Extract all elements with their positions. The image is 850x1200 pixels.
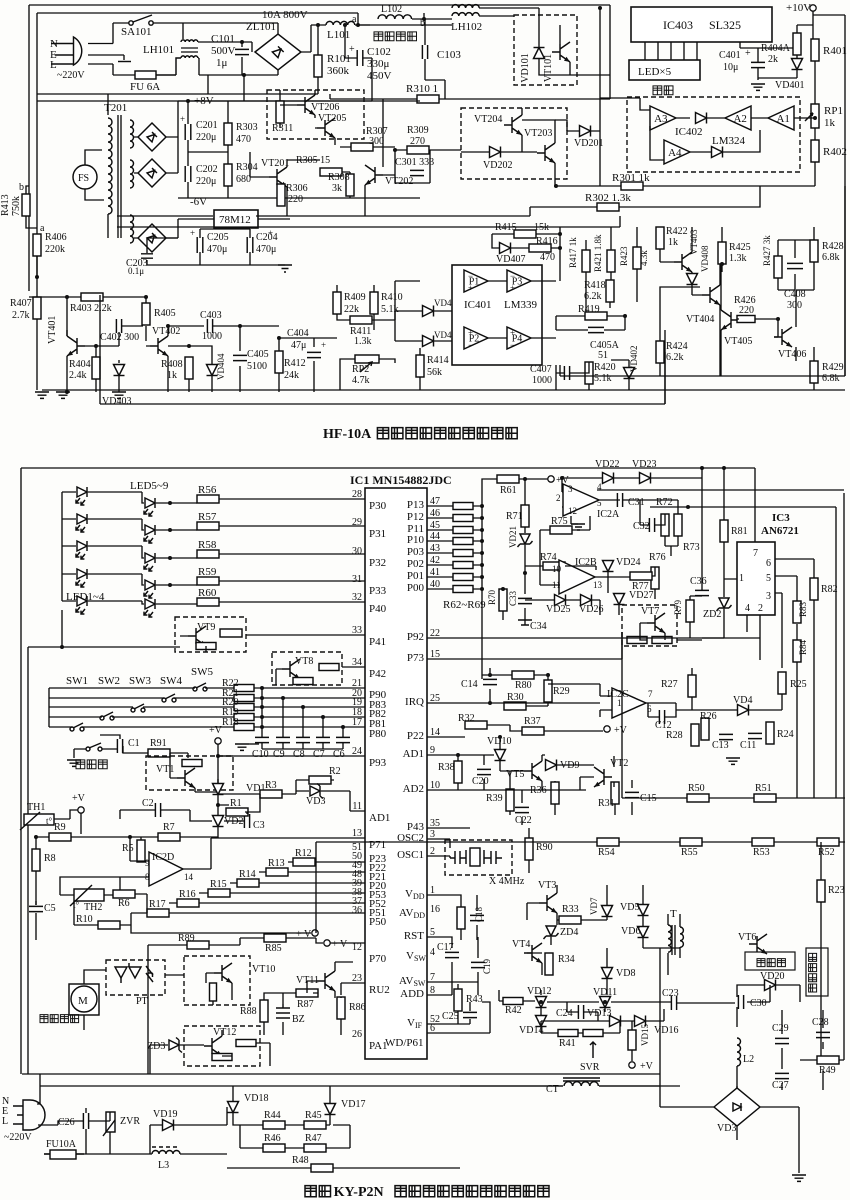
junction [720,262,724,266]
svg-text:R12: R12 [295,848,312,859]
diode VD12 [536,997,547,1008]
diode VD10 [495,750,506,761]
diode VD20 [765,980,776,991]
junction [523,477,527,481]
resistor R44 [263,1121,285,1129]
resistor VT7 b1 [627,637,647,644]
wire R32 R37 [427,725,603,737]
wire LH101 out [198,42,278,75]
svg-text:R302 1.3k: R302 1.3k [585,192,631,204]
resistor R308 [346,174,354,196]
svg-text:R56: R56 [198,484,217,496]
junction [480,516,484,520]
transistor VT5 [524,761,542,781]
terminal +V 5 [629,1062,635,1068]
svg-text:VT7: VT7 [641,606,659,617]
potentiometer RP1 [811,104,819,128]
svg-text:C402 300: C402 300 [100,332,139,343]
resistor R30 [504,702,526,710]
svg-text:X 4MHz: X 4MHz [489,876,525,887]
svg-text:C1: C1 [128,738,140,749]
resistor R303 [224,123,232,145]
svg-text:R413: R413 [0,194,11,216]
svg-text:R88: R88 [240,1006,257,1017]
svg-text:R7: R7 [163,822,175,833]
wire IRQ area [427,668,600,706]
dashed box VT10 [184,956,250,1005]
svg-text:R310 1: R310 1 [406,83,438,95]
capacitor C9 [276,737,290,742]
wire VT202 area [365,99,461,216]
capacitor C33 [518,598,532,603]
diode VD4 [738,705,749,716]
svg-text:VT403: VT403 [689,229,699,255]
svg-text:10A 800V: 10A 800V [262,9,308,21]
op-amp IC2C [612,688,646,718]
capacitor C405 [233,355,247,360]
resistor R428 [810,240,818,262]
svg-text:R81: R81 [731,526,748,537]
optocoupler PT [115,967,141,978]
resistor R305 [320,168,342,176]
resistor R404A [793,33,801,55]
svg-text:3k: 3k [332,183,342,194]
svg-text:L2: L2 [743,1054,754,1065]
wire IC2D area [36,837,365,905]
wire 78M12 [178,218,290,220]
ground [571,524,585,530]
resistor RC18 [457,907,465,929]
svg-text:VD7: VD7 [589,897,599,915]
svg-text:R27: R27 [661,679,678,690]
diode VD27 [614,594,625,605]
dashed box VT206/VT205 [267,90,364,139]
zener ZD3 [169,1038,182,1053]
svg-text:FS: FS [78,173,89,184]
svg-text:7: 7 [753,548,758,559]
diode VD15 [610,1016,621,1027]
svg-text:3: 3 [766,591,771,602]
svg-text:L3: L3 [158,1160,169,1171]
resistor R53 [752,838,774,846]
resistor R65 [453,538,473,545]
wire main frame [29,5,610,291]
svg-text:6.2k: 6.2k [666,352,684,363]
transistor VT404 [702,285,720,305]
diode VD11 [600,997,611,1008]
wire R424 [660,287,700,376]
svg-text:R26: R26 [700,711,717,722]
svg-text:R43: R43 [466,994,483,1005]
wire bridge B3 [134,237,178,239]
svg-text:C13: C13 [712,740,729,751]
wire T core [672,925,675,955]
svg-text:14: 14 [184,872,194,882]
ground [726,758,740,764]
junction [341,725,345,729]
svg-text:330μ: 330μ [367,58,390,70]
svg-text:56k: 56k [427,367,442,378]
svg-text:13: 13 [593,580,603,590]
resistor R61 [497,475,519,483]
junction [166,324,170,328]
resistor R421 [607,250,615,272]
varistor ZVR [106,1112,115,1132]
resistor R31 [611,782,619,804]
junction [65,390,69,394]
op-amp IC2D [149,852,183,886]
diode VD19 [163,1120,174,1131]
T201 sec1 [130,120,134,148]
wire TH2 area [36,877,147,940]
wire opamp row [676,117,815,119]
wire reg caps top [178,219,250,238]
svg-text:P80: P80 [369,728,387,740]
capacitor C204 [247,237,253,253]
svg-text:C204: C204 [256,232,278,243]
LED5 [76,487,87,505]
resistor R41b [583,1030,603,1037]
svg-text:R423: R423 [619,246,629,266]
diode VD24 [603,561,614,572]
wire row A right edge [597,490,844,842]
svg-text:SW5: SW5 [191,666,214,678]
wire LED col1 [62,492,142,601]
transistor VT204 [504,115,522,135]
thermistor TH1 [24,814,54,825]
junction [480,551,484,555]
capacitor C24 [578,1005,583,1019]
resistor R32 [465,721,487,729]
svg-text:C29: C29 [772,1023,789,1034]
svg-text:C22: C22 [515,815,532,826]
LED6 [76,514,87,532]
wire a4 [600,97,640,99]
wire bridge B1 [134,136,178,138]
AC plug 2 [13,1100,45,1130]
T201 sec2 [130,160,134,188]
svg-text:VT201: VT201 [261,158,289,169]
diode A4 out [712,147,723,158]
svg-text:VT101: VT101 [543,54,554,82]
svg-text:47μ: 47μ [291,340,306,351]
svg-text:R82: R82 [821,584,838,595]
resistor R71 [521,505,529,527]
svg-text:+10V: +10V [786,2,811,14]
svg-text:C36: C36 [690,576,707,587]
wire vertical x600 [599,8,601,186]
svg-text:+: + [180,114,185,124]
capacitor C12 [659,710,664,724]
svg-text:R8: R8 [44,853,56,864]
svg-text:P01: P01 [407,570,424,582]
resistor R55 [680,838,702,846]
diode VD1 [213,784,224,795]
terminal +V [215,738,221,744]
svg-text:R51: R51 [755,783,772,794]
wire R89 R85 [148,938,365,1074]
resistor R36 [551,782,559,804]
svg-text:A4: A4 [668,147,682,159]
junction [34,835,38,839]
svg-text:C3: C3 [253,820,265,831]
junction [480,504,484,508]
junction [260,696,264,700]
svg-text:ZL101: ZL101 [246,21,276,33]
op-amp A4 [664,140,690,164]
wire mid buses [117,216,620,227]
svg-text:P71: P71 [369,839,386,851]
wire VT101 box [539,8,610,75]
svg-text:VD407: VD407 [496,254,525,265]
svg-text:C28: C28 [812,1017,829,1028]
svg-text:R417 1k: R417 1k [568,237,578,268]
resistor R60 [197,598,219,606]
svg-text:b: b [19,182,24,193]
ground [118,61,131,63]
svg-text:R402: R402 [823,146,847,158]
diode VD9 [546,760,557,771]
resistor R424 [656,341,664,363]
wire frame top/left [21,468,755,1074]
svg-text:SW2: SW2 [98,675,120,687]
svg-text:VD17: VD17 [341,1099,365,1110]
switch SA101 [129,21,133,25]
bridge rectifier B3 [138,224,166,252]
resistor R3 [260,790,282,798]
resistor R20 [234,704,254,711]
capacitor C201 [185,124,191,140]
svg-text:C7: C7 [313,749,325,760]
transistor VT6 [749,934,767,954]
switch SW3 [131,708,135,712]
svg-text:RST: RST [404,930,424,942]
svg-text:L: L [50,59,57,71]
svg-text:P10: P10 [407,534,425,546]
resistor R101 [314,55,322,77]
junction [776,317,780,321]
svg-text:P13: P13 [407,499,425,511]
svg-text:VT12: VT12 [213,1027,236,1038]
svg-text:2: 2 [556,493,561,503]
resistor R83 [793,601,801,623]
svg-text:R1: R1 [230,798,242,809]
svg-text:SW3: SW3 [129,675,152,687]
wire R62 bus [481,506,483,679]
terminal +10V [810,5,816,11]
transistor VT9 [188,626,206,646]
capacitor C404 [307,352,321,357]
svg-text:R31: R31 [598,798,615,809]
svg-text:ZVR: ZVR [120,1116,140,1127]
capacitor C101 [235,49,249,54]
svg-text:C10: C10 [252,749,269,760]
wire VT3 VT4 [527,885,680,995]
dashed box crystal [445,840,512,875]
svg-text:ZD4: ZD4 [560,927,578,938]
capacitor C202 [185,166,191,182]
junction [260,725,264,729]
svg-text:+: + [349,44,355,55]
svg-text:−: − [468,340,473,350]
junction [168,583,172,587]
svg-text:IC2D: IC2D [152,852,174,863]
wire VT401 outs [96,326,150,392]
svg-text:9: 9 [145,858,150,868]
junction [94,344,98,348]
wire R409 R410 [337,285,374,330]
resistor R422 [656,227,664,249]
junction [168,528,172,532]
resistor R84 [793,640,801,662]
resistor R89 [187,941,209,949]
wire C1 R91 [74,735,188,758]
svg-text:220μ: 220μ [196,176,216,187]
svg-text:AN6721: AN6721 [761,525,799,537]
resistor VT10 bias [210,983,217,1001]
junction [722,466,726,470]
wire R41 row [541,1021,620,1033]
heating coil box [806,948,828,996]
transistor VT10 [214,963,232,983]
svg-text:R421 1.8k: R421 1.8k [593,234,603,272]
junction [501,587,505,591]
capacitor C14 [483,679,497,684]
wire R3 R2 VD3 [218,756,365,811]
svg-text:~220V: ~220V [57,70,85,81]
resistor R16 [177,899,199,907]
junction [488,673,492,677]
wire row B right edge [650,507,836,798]
svg-text:470: 470 [540,252,555,263]
svg-text:1k: 1k [668,237,678,248]
svg-text:500V: 500V [211,45,236,57]
capacitor C203 [141,254,153,258]
capacitor C6 [336,737,350,742]
dashed box IC402 [627,97,800,172]
transistor VT205 [317,118,335,138]
wire R1 link [218,794,260,812]
inductor L2 [737,1038,741,1066]
svg-text:C101: C101 [211,33,235,45]
capacitor C407 [564,366,569,380]
svg-text:4.7k: 4.7k [352,375,370,386]
magnetron box [745,952,795,970]
resistor VT8 bias2 [293,678,313,685]
wire VT404 VT405 [692,227,778,376]
resistor R7 [158,833,180,841]
resistor R414 [416,355,424,377]
svg-text:VT2: VT2 [610,758,628,769]
svg-text:C205: C205 [207,232,229,243]
svg-text:P30: P30 [369,500,387,512]
junction [554,184,558,188]
resistor R401 [811,39,819,61]
fuse FU10A [50,1150,76,1159]
svg-text:5.1k: 5.1k [381,304,399,315]
wire R307 [340,146,395,148]
switch SW2 [100,716,104,720]
svg-text:4: 4 [745,603,750,614]
diode VD25 [555,595,566,606]
LED5 [144,599,155,617]
svg-text:R62~R69: R62~R69 [443,599,486,611]
transistor VT402 [150,336,168,356]
wire VD201 [555,120,600,131]
wire main right [358,24,452,26]
fuse FU 6A [135,71,156,79]
svg-text:VT402: VT402 [152,326,180,337]
svg-text:R416: R416 [536,236,558,247]
svg-text:36: 36 [352,905,362,916]
resistor R75 [550,526,572,534]
T secondary [680,927,683,947]
svg-text:R80: R80 [515,680,532,691]
svg-text:1μ: 1μ [216,57,228,69]
svg-text:24k: 24k [284,370,299,381]
wire C102 leads [244,25,372,101]
wire r302 left [529,207,531,216]
svg-text:RU2: RU2 [369,984,390,996]
wire pin row 541 [427,540,482,542]
T201 primary winding [108,118,112,214]
op-amp IC2A [563,484,599,516]
wire P92 P73 rows [427,632,760,659]
diode VD202 [490,147,501,158]
resistor R304 [224,164,232,186]
svg-text:R25: R25 [790,679,807,690]
resistor R46 [263,1144,285,1152]
svg-text:220μ: 220μ [196,132,216,143]
wire pin row 518 [427,517,482,519]
svg-text:VT205: VT205 [318,113,346,124]
svg-text:R34: R34 [558,954,575,965]
resistor R50 [687,794,709,802]
capacitor C405A [588,327,604,332]
svg-text:6.8k: 6.8k [822,252,840,263]
wire led gnd drop [61,610,63,647]
wire VD1 VD2 [218,779,250,838]
diode VD22 [603,473,614,484]
resistor R74 [543,562,565,570]
resistor R73 [674,514,682,536]
resistor R5 [137,840,145,862]
svg-text:360k: 360k [327,65,350,77]
resistor R63 [453,515,473,522]
diode VD402 [624,368,635,379]
wire -6V rail [178,197,420,199]
svg-text:R10: R10 [76,914,93,925]
svg-text:+V: +V [72,793,86,804]
svg-text:C31: C31 [628,497,645,508]
junction [558,232,562,236]
svg-text:VD402: VD402 [629,346,639,373]
svg-text:R71: R71 [506,511,523,522]
svg-text:R311: R311 [272,123,293,134]
svg-text:R45: R45 [305,1110,322,1121]
svg-text:C33: C33 [508,590,518,606]
wire LH102 out [479,8,539,16]
svg-text:R419: R419 [578,304,600,315]
wire pin row 565 [427,564,482,566]
wire plug outs [88,23,135,75]
resistor R307 [351,143,373,151]
wire C101 [241,42,243,75]
wire VT406 area [796,227,814,390]
op-amp A1 [768,106,794,130]
resistor R23 [817,880,825,902]
svg-text:C34: C34 [530,621,547,632]
